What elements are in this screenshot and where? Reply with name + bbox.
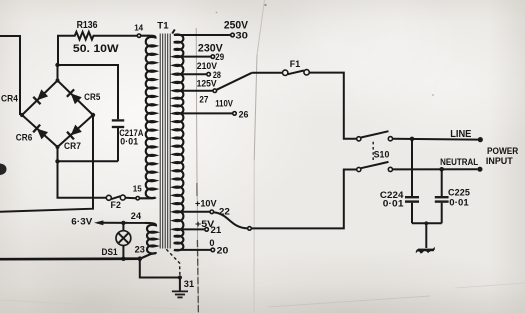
capacitor C225 [441,169,443,196]
fuse F2 [106,195,111,200]
pin 15 terminal [136,197,139,200]
T1 secondary winding (taps 30-20) [174,34,184,250]
diode CR4 [33,89,48,104]
svg-text:CR7: CR7 [64,141,81,152]
wire: capacitor commons [412,222,442,224]
wire: NEUTRAL [393,168,478,170]
pin 14 terminal [137,34,140,37]
shield dashed link pin 31 [166,249,180,275]
node: bridge bottom junction [55,159,59,163]
diode CR6 [33,125,48,140]
wire: bottom node down to fuse F2 [58,161,107,198]
switch S10 upper pole [357,137,361,141]
svg-text:0·01: 0·01 [120,136,138,146]
wire: left AC input to bridge left corner [0,36,20,115]
svg-text:S10: S10 [374,149,390,159]
ground (pin 31) [179,278,181,291]
svg-text:110V: 110V [215,99,233,109]
S10 link dashes [372,142,374,163]
svg-text:31: 31 [184,279,194,289]
wire: bridge right corner down then left [0,115,93,212]
bridge rectifier diamond [22,81,93,148]
wire: node across to C217A top lead [58,65,119,119]
svg-text:0·01: 0·01 [383,198,404,208]
wire: bridge bottom corner down and across to C217A bottom [57,147,59,161]
paper streaks [268,296,430,307]
tap 21 [175,228,205,230]
svg-text:+5V: +5V [195,219,215,230]
svg-text:26: 26 [239,109,249,120]
svg-text:230V: 230V [198,43,224,55]
wire: bridge top corner up to node [57,65,59,81]
wire: F1 to switch S10 upper pole [309,73,356,139]
svg-text:27: 27 [199,94,208,104]
svg-text:50. 10W: 50. 10W [73,43,119,55]
wire: tap 27 diagonal to fuse F1 [217,73,252,90]
svg-text:23: 23 [135,245,145,255]
diode CR5 [67,89,82,104]
svg-text:CR4: CR4 [1,94,18,105]
paper crease left [196,28,198,313]
diode CR7 [67,124,82,139]
T1 primary winding (pins 14-15) [141,36,156,198]
capacitor C217A [112,119,124,121]
tap 28 [175,73,207,75]
svg-text:15: 15 [133,184,142,193]
ground (power input) [425,223,427,248]
paper specks [264,4,266,6]
svg-text:POWER: POWER [487,146,519,156]
svg-text:LINE: LINE [450,129,472,140]
svg-text:T1: T1 [157,21,169,32]
paper crease right [257,0,265,55]
svg-text:CR5: CR5 [84,92,101,103]
tap 26 [175,112,233,114]
wire: LINE [393,138,479,141]
T1 aux winding (pins 24-23) [145,223,156,253]
lamp DS1 [121,221,125,225]
svg-text:INPUT: INPUT [486,156,513,166]
wire: rail down to shield ground node [140,259,180,278]
node: bridge top junction [55,63,59,67]
svg-text:F2: F2 [111,200,121,210]
svg-text:0·01: 0·01 [449,198,469,208]
svg-text:C225: C225 [448,187,470,197]
svg-text:CR6: CR6 [16,133,33,144]
capacitor C224 [411,139,413,196]
tap 29 [175,56,211,58]
switch S10 lower pole [357,167,361,171]
T1 core [159,34,161,249]
svg-text:125V: 125V [197,79,217,89]
scan blob left edge [0,164,7,176]
svg-text:14: 14 [134,24,143,33]
svg-text:250V: 250V [224,20,249,32]
svg-text:DS1: DS1 [102,247,118,257]
svg-text:210V: 210V [197,61,217,71]
tap 30 [175,34,231,36]
fuse F1 [283,70,288,75]
svg-text:F1: F1 [290,59,300,69]
svg-text:20: 20 [217,245,229,255]
wire: S10 lower pole back to tap 22 [251,170,356,229]
tap 27 [175,90,213,92]
tap 22 [175,211,210,213]
resistor R136 [58,32,137,65]
svg-text:24: 24 [131,211,142,221]
svg-text:R136: R136 [77,20,98,31]
svg-text:0: 0 [209,238,214,248]
svg-text:6·3V: 6·3V [71,217,93,227]
svg-text:NEUTRAL: NEUTRAL [440,157,479,167]
svg-text:+10V: +10V [195,199,217,210]
wire: thick bottom rail to pin 23 [0,257,140,260]
wire: 6.3V arrow line to pin 24 [94,220,103,225]
tap 20 [175,249,211,251]
